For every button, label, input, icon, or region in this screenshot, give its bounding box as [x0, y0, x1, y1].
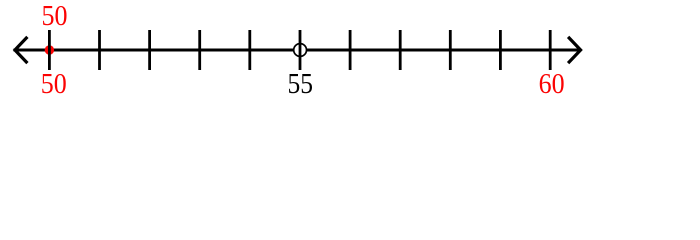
number line diagram 50 to 60: [0, 0, 700, 100]
tick 56: [349, 30, 352, 70]
wire: main number line: [14, 49, 582, 52]
svg-text:50: 50: [42, 1, 68, 32]
tick 58: [449, 30, 452, 70]
svg-text:60: 60: [539, 69, 565, 100]
svg-text:50: 50: [41, 69, 67, 100]
tick 53: [198, 30, 201, 70]
right arrowhead: [569, 38, 580, 62]
svg-text:55: 55: [287, 69, 313, 100]
tick 55: [299, 30, 302, 70]
node 50: filled red dot: [45, 45, 54, 54]
left arrowhead: [15, 38, 26, 62]
node 55: open circle: [294, 44, 307, 57]
tick 57: [399, 30, 402, 70]
tick 51: [98, 30, 101, 70]
tick 52: [148, 30, 151, 70]
tick 59: [499, 30, 502, 70]
tick 60: [549, 30, 552, 70]
tick 50: [48, 30, 51, 70]
tick 54: [248, 30, 251, 70]
